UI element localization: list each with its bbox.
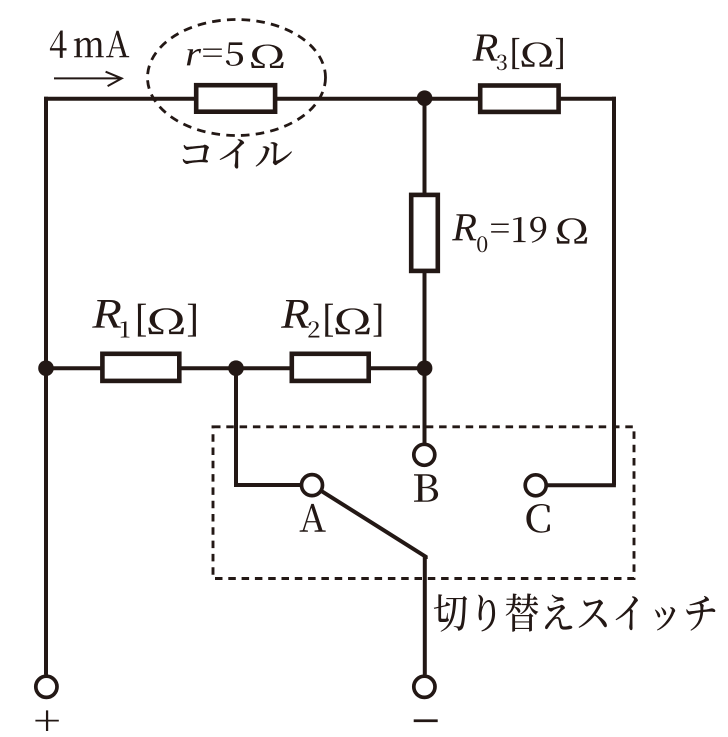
wire: from contact C right to the right branch: [546, 483, 616, 487]
dashed box: selector switch: [213, 427, 634, 579]
node: junction between R1 and R2: [228, 360, 244, 376]
label: r=5 ohm on coil: [187, 42, 284, 68]
terminal - circle: [414, 676, 435, 697]
contact C circle: [525, 475, 546, 496]
resistor R1: [102, 354, 179, 381]
label: contact C: [526, 504, 550, 533]
label: current 4 mA: [50, 30, 129, 57]
resistor R0: [411, 195, 438, 271]
resistor R3: [480, 86, 558, 112]
label: R1 [ohm]: [92, 300, 196, 337]
resistor r (coil internal resistance): [196, 85, 275, 112]
node: junction right of R2 (below R0): [417, 360, 433, 376]
wire: vertical from R0 down to middle node: [423, 271, 427, 368]
current arrow 4 mA: [54, 72, 122, 86]
contact A circle: [302, 475, 323, 496]
wire: from switch arm down to - terminal: [423, 556, 427, 675]
wire: middle horizontal through R1 and R2: [46, 366, 425, 370]
node: junction left (R1 left end): [38, 360, 54, 376]
node: junction top (above R0): [417, 90, 433, 106]
wire: vertical from top node down to R0: [423, 99, 427, 193]
label: - terminal: [414, 719, 438, 722]
resistor R2: [292, 354, 369, 381]
label: selector switch (japanese): [434, 593, 716, 631]
label: contact B: [414, 474, 438, 502]
contact B circle: [414, 444, 435, 465]
label: R0 = 19 ohm: [452, 214, 587, 252]
wire: right vertical from top-right corner down to switch contact C level: [612, 97, 616, 486]
label: R3 [ohm]: [472, 34, 563, 70]
wire: left vertical from top-left corner to + terminal: [44, 97, 48, 675]
label: + terminal: [35, 710, 58, 731]
wire: from R1-R2 node down and right to contact A: [236, 368, 301, 485]
label: contact A: [300, 504, 326, 532]
dashed ellipse around coil: [148, 20, 326, 136]
wire: from middle node down to contact B: [423, 368, 427, 444]
wire: top horizontal from left corner through coil to node at top: [44, 97, 425, 101]
label: R2 [ohm]: [281, 300, 381, 337]
terminal + circle: [36, 676, 57, 697]
wire: top horizontal from node to top-right corner: [425, 97, 616, 101]
label: coil (katakana): [183, 139, 292, 168]
switch arm from contact A to bottom wire: [321, 491, 425, 559]
